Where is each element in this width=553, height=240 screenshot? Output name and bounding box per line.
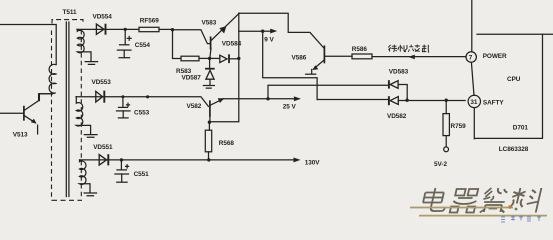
node: 25V tap <box>266 97 269 100</box>
svg-text:VD551: VD551 <box>93 144 113 151</box>
resistor R586 <box>352 54 372 59</box>
node: C551 junction <box>120 158 123 161</box>
wire: primary bottom to V513 collector <box>38 94 40 101</box>
wire: 9V vertical rail <box>209 13 238 122</box>
130V output arrow <box>294 158 301 163</box>
svg-text:9 V: 9 V <box>264 36 274 43</box>
transformer T511 primary winding <box>39 64 55 93</box>
CPU pin 7 circle <box>466 52 476 62</box>
wire: +9V rectifier rail <box>77 28 139 30</box>
resistor RF569 <box>139 27 159 31</box>
svg-text:R586: R586 <box>352 46 368 53</box>
capacitor C554 <box>117 29 131 57</box>
transistor V582 <box>210 98 224 122</box>
arrow: standby control direction <box>408 55 415 60</box>
svg-text:V513: V513 <box>13 132 28 139</box>
node: C553 junction <box>121 95 124 98</box>
transformer secondary winding 2 (middle) <box>76 97 90 134</box>
svg-text:POWER: POWER <box>483 53 507 60</box>
diode VD583 <box>389 80 407 100</box>
node: VD583/VD582 join <box>405 99 408 102</box>
wire: top loop to V586 collector <box>239 13 324 48</box>
svg-text:130V: 130V <box>305 160 321 167</box>
svg-text:C551: C551 <box>134 171 150 178</box>
svg-text:SAFTY: SAFTY <box>483 99 504 106</box>
svg-text:V582: V582 <box>187 103 202 110</box>
CPU box D701 <box>477 33 553 35</box>
diode VD553 <box>96 91 105 103</box>
25V output arrow <box>294 96 301 101</box>
diode VD551 <box>99 154 108 165</box>
node: C554 junction <box>124 28 127 31</box>
wire: junction down to R583 <box>173 31 182 59</box>
label standby control (Chinese) <box>388 45 429 53</box>
resistor R759 <box>443 100 449 152</box>
wire: R583 to node A <box>199 57 210 59</box>
ground (winding 2) <box>84 135 97 138</box>
diode VD554 <box>96 24 105 35</box>
ground (winding 1) <box>85 62 97 65</box>
node A: V583 collector / R583 / VD587 / VD584 <box>208 57 211 60</box>
node: V582 collector / R568 <box>208 121 211 124</box>
svg-text:5V-2: 5V-2 <box>434 161 447 168</box>
wire: junction to V583 base <box>173 30 211 44</box>
transistor V586 <box>306 46 352 74</box>
ground (VD587) <box>203 86 214 89</box>
svg-text:7: 7 <box>469 55 473 62</box>
capacitor C553 <box>117 97 131 118</box>
svg-text:31: 31 <box>470 99 478 106</box>
wire: V586 emitter line to VD582 <box>317 99 388 101</box>
transformer secondary winding 1 (top) <box>77 29 91 61</box>
wire: 9V tap horizontal <box>239 30 263 32</box>
diode VD582 <box>389 96 465 105</box>
wire: 9V tap down to V586 emitter line <box>263 31 317 99</box>
resistor R568 <box>205 122 211 160</box>
dashed shield box bottom edge <box>52 199 82 201</box>
svg-text:D701: D701 <box>513 125 529 132</box>
dashed shield box right edge <box>80 30 82 199</box>
svg-text:R759: R759 <box>451 123 467 130</box>
wire: 25V rectifier rail <box>76 97 208 107</box>
ground (winding 3) <box>84 193 96 196</box>
svg-text:C554: C554 <box>135 42 151 49</box>
dashed shield box left edge <box>51 31 53 201</box>
wire: 25V line from V582 emitter <box>224 98 296 100</box>
wire: below pin 31 <box>473 108 475 139</box>
svg-text:VD583: VD583 <box>389 69 409 76</box>
diode VD584 <box>210 54 239 63</box>
transformer secondary winding 3 (bottom) <box>80 160 91 193</box>
svg-text:VD587: VD587 <box>182 75 202 82</box>
node: 9V tap <box>261 30 264 33</box>
dashed shield box top bracket <box>52 20 83 24</box>
transformer core <box>66 22 69 197</box>
node: R759 tap <box>445 99 448 102</box>
wire: mains feed to primary top <box>0 25 56 65</box>
node: stray junction dot <box>146 95 149 98</box>
svg-text:VD554: VD554 <box>93 13 113 20</box>
wire: VD583 branch upper <box>268 85 388 99</box>
svg-text:V583: V583 <box>202 20 217 27</box>
zener diode VD587 <box>205 58 215 85</box>
wire: R586 to CPU pin 7 <box>372 56 465 58</box>
node: VD584 / 9V vertical <box>237 57 240 60</box>
node: R568 bottom junction <box>207 158 210 161</box>
watermark big characters (electronics data) <box>421 188 542 213</box>
wire: off-page vertical above pin 7 <box>471 0 473 52</box>
transistor V583 <box>210 13 239 58</box>
watermark small blue text <box>501 216 541 223</box>
svg-text:CPU: CPU <box>507 76 521 83</box>
svg-text:T511: T511 <box>63 9 78 16</box>
svg-text:C553: C553 <box>134 109 150 116</box>
wire: 130V rectifier rail <box>80 159 295 161</box>
watermark orange mark <box>508 205 512 209</box>
svg-text:VD582: VD582 <box>387 113 407 120</box>
wire: RF569 to V583 base <box>159 28 173 30</box>
watermark underline strokes <box>410 208 547 216</box>
svg-text:RF569: RF569 <box>140 18 159 25</box>
svg-text:25 V: 25 V <box>283 104 297 111</box>
transistor V513 <box>0 94 53 134</box>
capacitor C551 <box>115 160 129 182</box>
resistor R583 <box>181 56 199 61</box>
svg-text:VD553: VD553 <box>92 79 112 86</box>
wire: pin7 to pin31 vertical <box>471 62 474 95</box>
svg-text:R568: R568 <box>219 140 235 147</box>
svg-text:V586: V586 <box>292 55 307 62</box>
CPU pin 31 circle <box>468 95 480 107</box>
node: RF569/R583 junction <box>171 28 174 31</box>
9V output arrow <box>263 30 272 32</box>
svg-text:LC863328: LC863328 <box>499 146 529 153</box>
